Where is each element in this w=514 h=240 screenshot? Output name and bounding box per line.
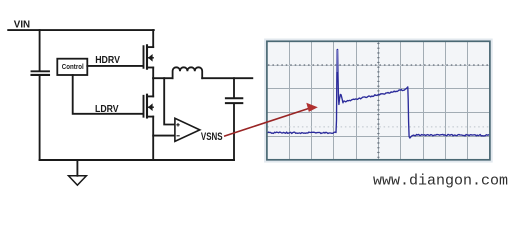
capacitor C2 output cap bbox=[226, 97, 242, 99]
control block U1 bbox=[57, 59, 87, 75]
svg-text:Control: Control bbox=[62, 62, 84, 71]
oscilloscope graticule grid bbox=[267, 41, 490, 160]
svg-text:HDRV: HDRV bbox=[95, 55, 120, 66]
oscilloscope dotted cursor line bbox=[268, 126, 490, 128]
capacitor C1 input cap bbox=[32, 70, 50, 72]
oscilloscope waveform spike highlight bbox=[336, 50, 338, 72]
node VOUT wire after inductor bbox=[202, 77, 252, 79]
wire control bottom to LDRV bbox=[73, 75, 143, 114]
wire switch node to Q2 drain bbox=[152, 78, 154, 96]
wire left vertical from VIN rail to input cap bbox=[39, 30, 41, 70]
svg-text:VSNS: VSNS bbox=[201, 131, 223, 143]
node ground bottom rail wire bbox=[40, 159, 234, 161]
oscilloscope screenshot background bbox=[265, 40, 492, 162]
red annotation arrow from VSNS to scope bbox=[224, 109, 309, 137]
op-amp U2 VSNS amplifier bbox=[175, 118, 200, 141]
op-amp plus input mark bbox=[176, 123, 179, 136]
wire Q1 drain to VIN rail bbox=[152, 30, 154, 47]
wire sense tap switch node to op-amp plus input bbox=[164, 78, 174, 124]
inductor L1 bbox=[173, 67, 203, 78]
oscilloscope vertical axis tick marks bbox=[377, 43, 380, 158]
wire output cap to ground rail bbox=[233, 104, 235, 160]
wire Q2 source to ground rail bbox=[152, 117, 154, 160]
wire input cap to ground rail bbox=[39, 76, 41, 160]
node SW switch node wire bbox=[153, 77, 172, 79]
oscilloscope waveform trace bbox=[268, 50, 490, 139]
wire Q1 source to switch node bbox=[152, 68, 154, 79]
oscilloscope border bbox=[267, 41, 490, 160]
svg-text:www.diangon.com: www.diangon.com bbox=[373, 173, 508, 190]
wire VOUT to output cap bbox=[233, 78, 235, 97]
oscilloscope horizontal axis tick marks bbox=[268, 64, 488, 66]
wire HDRV control to Q1 gate bbox=[87, 65, 142, 67]
transistor Q1 high-side NMOS bbox=[144, 45, 154, 68]
ground bbox=[76, 160, 78, 176]
svg-text:VIN: VIN bbox=[14, 19, 30, 30]
transistor Q2 low-side NMOS bbox=[144, 95, 154, 118]
wire op-amp minus input to Q2 source line bbox=[153, 135, 174, 137]
op-amp minus input mark bbox=[177, 135, 180, 137]
svg-text:LDRV: LDRV bbox=[95, 104, 119, 115]
node VIN top rail wire bbox=[8, 29, 154, 31]
